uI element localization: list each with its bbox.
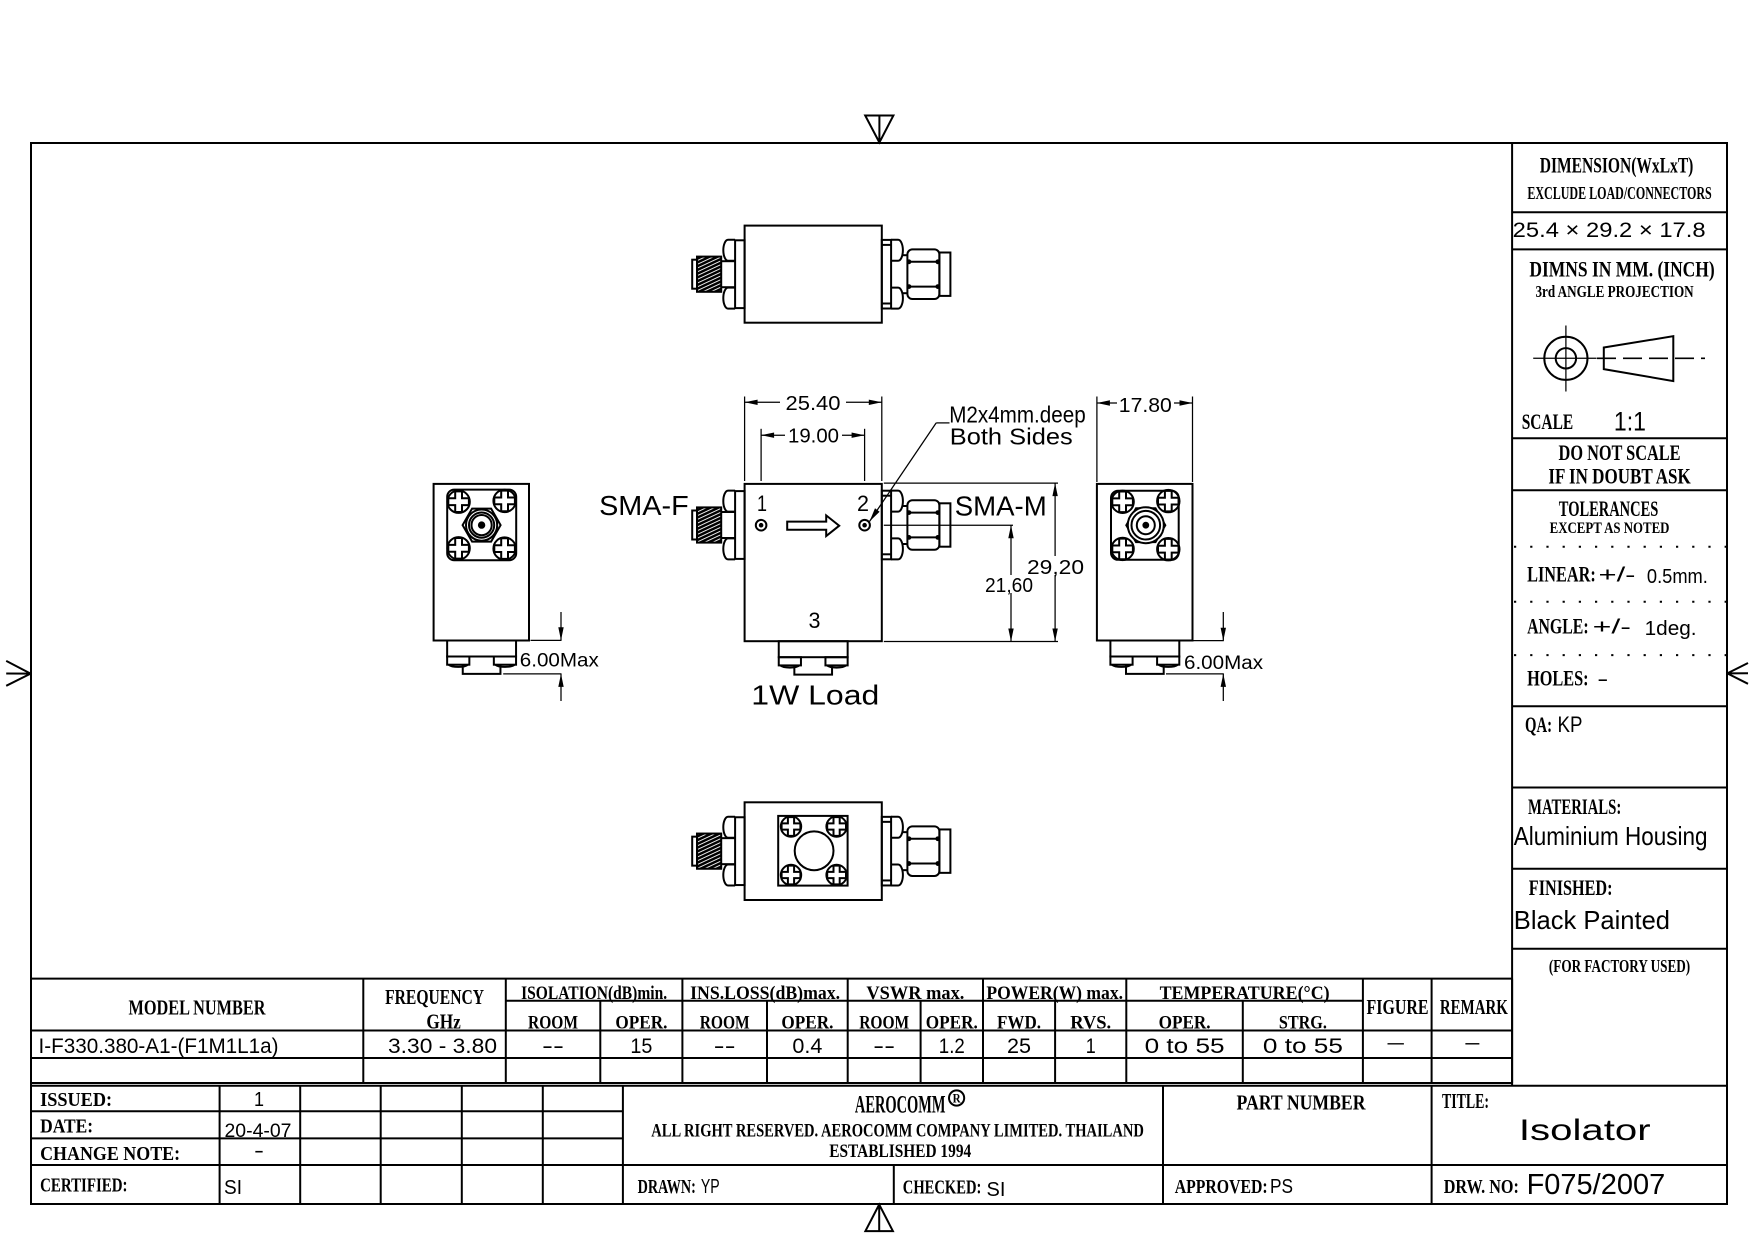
svg-text:OPER.: OPER. <box>615 1013 667 1034</box>
projection symbol cone <box>1604 336 1674 381</box>
svg-text:LINEAR:: LINEAR: <box>1527 562 1596 587</box>
bottom centering mark <box>865 1205 893 1232</box>
svg-text:HOLES:: HOLES: <box>1527 666 1589 691</box>
front view SMA-F connector end cap <box>692 511 697 540</box>
top view SMA-F connector flange plate <box>735 240 745 308</box>
dotted separator 3 <box>1514 654 1726 656</box>
right view load left screw head <box>1110 657 1132 665</box>
right view connector flange <box>1111 491 1179 560</box>
svg-text:RVS.: RVS. <box>1070 1013 1111 1034</box>
top view SMA-M connector hex nut <box>907 249 939 299</box>
svg-text:1.2: 1.2 <box>939 1035 965 1058</box>
forward direction arrow <box>787 515 839 536</box>
spec table bottom border <box>31 1082 1512 1084</box>
bottom view screw top-left <box>781 816 801 836</box>
bottom view SMA-M connector barrel <box>939 829 950 872</box>
svg-text:6.00Max: 6.00Max <box>1184 653 1264 674</box>
right view flange screw bottom-left <box>1111 538 1133 560</box>
bottom view SMA-F connector neck lines <box>721 837 735 839</box>
svg-text:DIMENSION(WxLxT): DIMENSION(WxLxT) <box>1540 153 1694 178</box>
svg-text:ALL RIGHT RESERVED. AEROCO: ALL RIGHT RESERVED. AEROCOMM COMPANY LIM… <box>651 1120 1144 1141</box>
front view SMA-F connector flange plate <box>735 491 745 559</box>
svg-text:1: 1 <box>757 491 767 516</box>
revision table column lines <box>219 1086 221 1204</box>
svg-text:-: - <box>1597 669 1608 691</box>
top view SMA-F connector top mounting boss <box>723 240 735 261</box>
svg-text:--: -- <box>873 1035 895 1058</box>
dimension 29.20 extension lines <box>884 482 1058 484</box>
bottom view mounting plate <box>778 816 847 886</box>
svg-text:MATERIALS:: MATERIALS: <box>1528 794 1621 819</box>
svg-text:VSWR max.: VSWR max. <box>866 983 964 1004</box>
issued row line <box>31 1110 623 1112</box>
bottom view SMA-M connector flange plate <box>882 817 891 886</box>
top view SMA-M connector barrel <box>939 253 950 296</box>
projection symbol centerline <box>1597 357 1705 359</box>
top view SMA-M connector flange plate <box>882 240 891 309</box>
svg-text:1W Load: 1W Load <box>751 680 879 711</box>
top view SMA-F connector end cap <box>692 260 697 289</box>
left view load left screw head <box>447 657 469 665</box>
left view connector hex body <box>463 509 501 542</box>
left view 6.00Max lower arrow <box>560 674 562 701</box>
front view SMA-M connector flange plate <box>882 491 891 560</box>
dimension 17.80 line and arrows <box>1097 402 1193 404</box>
svg-text:--: -- <box>714 1035 736 1058</box>
svg-text:--: -- <box>542 1035 564 1058</box>
svg-text:TITLE:: TITLE: <box>1442 1089 1489 1113</box>
svg-text:Aluminium Housing: Aluminium Housing <box>1514 821 1708 851</box>
left view load right screw head <box>494 657 516 665</box>
front view SMA-M connector top mounting boss <box>891 491 903 512</box>
svg-text:-: - <box>254 1140 264 1162</box>
svg-text:0 to 55: 0 to 55 <box>1145 1035 1225 1058</box>
dimension 21.60 line and arrows <box>1010 525 1012 641</box>
aerocomm part-number divider <box>1162 1086 1164 1204</box>
svg-text:Isolator: Isolator <box>1519 1114 1651 1147</box>
bottom view body outline <box>745 802 882 900</box>
bottom view SMA-M connector hex nut <box>907 826 939 876</box>
left side view body outline <box>434 484 529 641</box>
svg-text:SMA-M: SMA-M <box>955 490 1047 521</box>
bottom view SMA-F connector flange plate <box>735 817 745 885</box>
svg-text:—: — <box>1465 1031 1479 1054</box>
front view SMA-F connector threaded barrel <box>697 507 721 542</box>
svg-text:3rd ANGLE PROJECTION: 3rd ANGLE PROJECTION <box>1535 282 1694 301</box>
svg-text:STRG.: STRG. <box>1279 1013 1327 1034</box>
svg-text:ROOM: ROOM <box>859 1013 909 1034</box>
left view flange screw top-left <box>447 491 469 513</box>
svg-text:SI: SI <box>224 1177 242 1199</box>
spec table top border <box>31 978 1512 980</box>
left view connector flange <box>447 490 516 561</box>
svg-text:21,60: 21,60 <box>985 575 1033 597</box>
right view connector hex body <box>1126 508 1165 542</box>
svg-text:CERTIFIED:: CERTIFIED: <box>40 1174 127 1196</box>
svg-text:—: — <box>1388 1031 1404 1054</box>
svg-text:3.30 - 3.80: 3.30 - 3.80 <box>388 1035 497 1058</box>
spec table header bottom line <box>31 1030 1512 1032</box>
right view connector center pin <box>1143 523 1148 528</box>
bottom view screw bottom-left <box>781 865 801 885</box>
svg-text:6.00Max: 6.00Max <box>520 651 600 672</box>
svg-text:2: 2 <box>857 491 869 516</box>
svg-text:1: 1 <box>1086 1035 1096 1058</box>
top centering mark <box>865 116 893 143</box>
svg-text:FREQUENCY: FREQUENCY <box>385 985 484 1009</box>
right view flange screw top-right <box>1157 490 1179 512</box>
top view SMA-M connector neck lines <box>902 254 907 256</box>
dimension 19.00 extension lines <box>760 429 762 481</box>
left view connector outer circle <box>466 509 497 540</box>
svg-text:EXCLUDE LOAD/CONNECTORS: EXCLUDE LOAD/CONNECTORS <box>1527 183 1711 203</box>
left view load mounting plate <box>447 641 516 657</box>
svg-text:Black Painted: Black Painted <box>1514 905 1670 935</box>
leader line M2 tapped hole callout <box>936 422 949 424</box>
title block middle line <box>31 1164 1727 1166</box>
svg-text:OPER.: OPER. <box>1159 1013 1211 1034</box>
right view load center block <box>1126 665 1164 674</box>
svg-text:POWER(W) max.: POWER(W) max. <box>986 983 1123 1004</box>
svg-text:OPER.: OPER. <box>926 1013 978 1034</box>
left view load center block <box>463 665 501 674</box>
svg-text:PS: PS <box>1270 1176 1293 1198</box>
left view flange screw bottom-left <box>447 537 469 559</box>
bottom view SMA-M connector bottom mounting boss <box>891 865 903 886</box>
svg-text:0 to 55: 0 to 55 <box>1263 1035 1343 1058</box>
top view SMA-M connector bottom mounting boss <box>891 288 903 309</box>
svg-text:1deg.: 1deg. <box>1645 618 1697 640</box>
title block top border <box>31 1085 1727 1087</box>
right view connector outer circle <box>1128 507 1164 543</box>
front view SMA-F connector neck lines <box>721 511 735 513</box>
top view SMA-F connector neck lines <box>721 260 735 262</box>
svg-text:0.4: 0.4 <box>792 1035 822 1058</box>
bottom view SMA-F connector bottom mounting boss <box>723 865 735 886</box>
bottom view SMA-F connector top mounting boss <box>723 817 735 838</box>
svg-text:SMA-F: SMA-F <box>599 490 689 521</box>
front view SMA-M connector hex nut <box>907 500 939 550</box>
svg-text:DRAWN:: DRAWN: <box>638 1176 696 1198</box>
svg-text:F075/2007: F075/2007 <box>1527 1169 1666 1201</box>
dimension 25.40 line and arrows <box>745 401 882 403</box>
top view SMA-F connector threaded barrel <box>697 257 721 292</box>
svg-text:ANGLE:: ANGLE: <box>1527 614 1589 639</box>
bottom view screw top-right <box>826 816 846 836</box>
info panel row dividers <box>1512 211 1727 213</box>
third angle projection symbol circles <box>1544 337 1587 380</box>
svg-text:0.5mm.: 0.5mm. <box>1647 566 1708 588</box>
svg-text:TOLERANCES: TOLERANCES <box>1559 496 1659 521</box>
svg-text:(FOR FACTORY USED): (FOR FACTORY USED) <box>1549 956 1690 977</box>
right view 6.00Max upper arrow <box>1222 612 1224 641</box>
svg-text:ROOM: ROOM <box>700 1013 750 1034</box>
svg-text:EXCEPT AS NOTED: EXCEPT AS NOTED <box>1550 520 1670 537</box>
svg-text:IF IN DOUBT ASK: IF IN DOUBT ASK <box>1548 464 1690 489</box>
svg-text:ISSUED:: ISSUED: <box>40 1089 112 1111</box>
svg-text:20-4-07: 20-4-07 <box>225 1121 292 1142</box>
svg-text:DO NOT SCALE: DO NOT SCALE <box>1559 440 1681 465</box>
dotted separator 2 <box>1514 601 1726 603</box>
part-number title divider <box>1431 1086 1433 1204</box>
bottom view center hole <box>795 831 834 870</box>
svg-text:OPER.: OPER. <box>781 1013 833 1034</box>
front view SMA-M connector barrel <box>939 503 950 546</box>
svg-text:DATE:: DATE: <box>40 1116 93 1138</box>
svg-text:FINISHED:: FINISHED: <box>1529 875 1613 900</box>
front view load left screw head <box>779 657 801 665</box>
dimension 17.80 extension lines <box>1096 397 1098 483</box>
front view body outline <box>745 484 882 641</box>
svg-text:15: 15 <box>630 1035 652 1058</box>
svg-text:REMARK: REMARK <box>1440 995 1508 1019</box>
dimension 25.40 extension lines <box>744 397 746 482</box>
bottom view SMA-F connector end cap <box>692 837 697 866</box>
info panel left border <box>1511 143 1513 1086</box>
svg-text:ESTABLISHED 1994: ESTABLISHED 1994 <box>829 1141 971 1162</box>
right view 6.00Max lower arrow <box>1222 674 1224 701</box>
svg-text:ROOM: ROOM <box>528 1013 578 1034</box>
front view SMA-F connector top mounting boss <box>723 491 735 512</box>
svg-text:PART NUMBER: PART NUMBER <box>1237 1091 1367 1115</box>
port 2 pin <box>859 520 870 531</box>
front view load right screw head <box>825 657 847 665</box>
left view connector center pin <box>479 522 484 527</box>
spec table data row bottom line <box>31 1057 1512 1059</box>
dotted separator 1 <box>1514 546 1726 548</box>
left view 6.00Max upper arrow <box>560 612 562 640</box>
top view body outline <box>745 226 882 323</box>
dimension 29.20 line and arrows <box>1054 483 1056 641</box>
svg-text:I-F330.380-A1-(F1M1L1a): I-F330.380-A1-(F1M1L1a) <box>39 1035 279 1058</box>
left view flange screw bottom-right <box>493 537 515 559</box>
svg-text:R: R <box>953 1091 962 1106</box>
front view load mounting plate <box>779 641 848 657</box>
svg-text:19.00: 19.00 <box>788 426 839 448</box>
svg-text:CHECKED:: CHECKED: <box>903 1177 982 1199</box>
svg-text:SCALE: SCALE <box>1522 409 1574 434</box>
date row line <box>31 1137 623 1139</box>
right view load mounting plate <box>1110 641 1179 657</box>
svg-text:MODEL NUMBER: MODEL NUMBER <box>129 996 267 1020</box>
right view flange screw bottom-right <box>1157 538 1179 560</box>
right centering mark <box>1727 663 1748 684</box>
svg-text:FWD.: FWD. <box>997 1013 1041 1034</box>
svg-text:17.80: 17.80 <box>1119 395 1172 417</box>
right side view body outline <box>1097 484 1193 641</box>
svg-text:QA:: QA: <box>1525 712 1552 737</box>
front view SMA-M connector neck lines <box>902 505 907 507</box>
front view load center block <box>794 665 832 674</box>
bottom view SMA-F connector threaded barrel <box>697 834 721 869</box>
bottom row cell divider <box>893 1165 895 1204</box>
svg-text:DIMNS IN MM. (INCH): DIMNS IN MM. (INCH) <box>1529 257 1714 282</box>
svg-text:Both Sides: Both Sides <box>950 424 1073 450</box>
right view connector circles <box>1132 511 1161 540</box>
top view SMA-F connector bottom mounting boss <box>723 288 735 309</box>
svg-text:29,20: 29,20 <box>1027 557 1084 579</box>
svg-text:+/-: +/- <box>1593 617 1631 639</box>
svg-text:INS.LOSS(dB)max.: INS.LOSS(dB)max. <box>690 983 840 1004</box>
svg-text:ISOLATION(dB)min.: ISOLATION(dB)min. <box>521 983 667 1004</box>
port 1 pin <box>756 520 767 531</box>
svg-text:GHz: GHz <box>426 1010 461 1034</box>
svg-text:3: 3 <box>809 608 821 633</box>
dimension 21.60 extension line <box>884 524 1013 526</box>
svg-text:APPROVED:: APPROVED: <box>1175 1176 1268 1198</box>
svg-text:KP: KP <box>1558 712 1583 737</box>
svg-text:1:1: 1:1 <box>1614 407 1646 437</box>
projection symbol crosshair <box>1565 326 1567 392</box>
right view load right screw head <box>1157 657 1179 665</box>
svg-text:SI: SI <box>987 1179 1006 1201</box>
svg-text:DRW. NO:: DRW. NO: <box>1444 1176 1519 1198</box>
svg-text:+/-: +/- <box>1599 565 1636 587</box>
left view connector circles <box>469 513 494 538</box>
right view flange screw top-left <box>1111 491 1133 513</box>
svg-text:CHANGE NOTE:: CHANGE NOTE: <box>40 1143 180 1165</box>
svg-text:25.4 × 29.2 × 17.8: 25.4 × 29.2 × 17.8 <box>1513 219 1706 242</box>
svg-text:25: 25 <box>1007 1035 1031 1058</box>
front view SMA-F connector bottom mounting boss <box>723 538 735 559</box>
bottom view SMA-M connector top mounting boss <box>891 817 903 838</box>
spec table main column lines <box>362 979 364 1083</box>
bottom view SMA-M connector neck lines <box>902 831 907 833</box>
svg-text:FIGURE: FIGURE <box>1367 995 1429 1019</box>
dimension 19.00 line and arrows <box>761 434 865 436</box>
svg-text:YP: YP <box>701 1176 720 1198</box>
bottom view screw bottom-right <box>826 865 846 885</box>
svg-text:25.40: 25.40 <box>786 393 841 415</box>
svg-text:1: 1 <box>254 1089 264 1111</box>
front view SMA-M connector bottom mounting boss <box>891 538 903 559</box>
registered trademark symbol <box>949 1090 964 1105</box>
svg-text:AEROCOMM: AEROCOMM <box>855 1092 946 1119</box>
spec table sub column lines <box>599 1001 601 1083</box>
spec table header split line <box>506 1000 1363 1002</box>
left view flange screw top-right <box>493 490 515 512</box>
svg-text:TEMPERATURE(°C): TEMPERATURE(°C) <box>1160 983 1330 1004</box>
top view SMA-M connector top mounting boss <box>891 240 903 261</box>
left centering mark <box>6 661 30 686</box>
